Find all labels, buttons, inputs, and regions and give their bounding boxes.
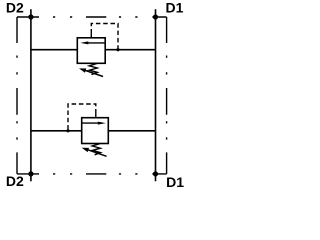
- enclosure boundary top (phantom line): [17, 16, 167, 18]
- junction dot: RV1 pilot tap: [116, 48, 119, 51]
- RV2 spring (zigzag below body): [92, 144, 100, 155]
- relief valve RV1 (upper) body square: [77, 38, 105, 64]
- junction dot: D2 bottom port on boundary: [28, 171, 33, 176]
- RV2 pilot stub (top of body): [95, 114, 97, 118]
- junction dot: D1 bottom port on boundary: [153, 171, 158, 176]
- svg-text:D2: D2: [6, 173, 24, 189]
- svg-text:D2: D2: [6, 0, 24, 16]
- junction dot: D1 top port on boundary: [153, 14, 158, 19]
- RV1 pilot stub (top of body): [90, 34, 92, 38]
- enclosure boundary right (phantom line): [166, 17, 168, 174]
- wire: lower relief valve left port line (to D2 bus): [31, 130, 82, 132]
- RV1 flow arrow (points left): [80, 41, 105, 44]
- wire: upper relief valve right port line (to D1 bus): [105, 49, 155, 51]
- svg-text:D1: D1: [166, 174, 184, 190]
- wire: lower relief valve right port line (to D1 bus): [108, 130, 155, 132]
- wire: D1 bus (right vertical line with port stubs): [155, 9, 157, 181]
- enclosure boundary left (phantom line): [16, 17, 18, 174]
- svg-text:D1: D1: [166, 0, 184, 16]
- RV1 adjustment arrow (diagonal through spring): [79, 68, 103, 76]
- enclosure boundary bottom (phantom line): [17, 173, 167, 175]
- RV1 spring (zigzag below body): [89, 63, 97, 74]
- wire: D2 bus (left vertical line with port stubs): [30, 9, 32, 181]
- junction dot: RV2 pilot tap: [66, 129, 69, 132]
- junction dot: D2 top port on boundary: [28, 14, 33, 19]
- RV1 pilot line (dashed, senses D1 side): [91, 24, 118, 50]
- wire: upper relief valve left port line (to D2 bus): [31, 49, 77, 51]
- RV2 flow arrow (points right): [82, 122, 106, 125]
- RV2 pilot line (dashed, senses D2 side): [68, 104, 96, 131]
- relief valve RV2 (lower) body square: [82, 118, 109, 144]
- RV2 adjustment arrow (diagonal through spring): [82, 148, 107, 157]
